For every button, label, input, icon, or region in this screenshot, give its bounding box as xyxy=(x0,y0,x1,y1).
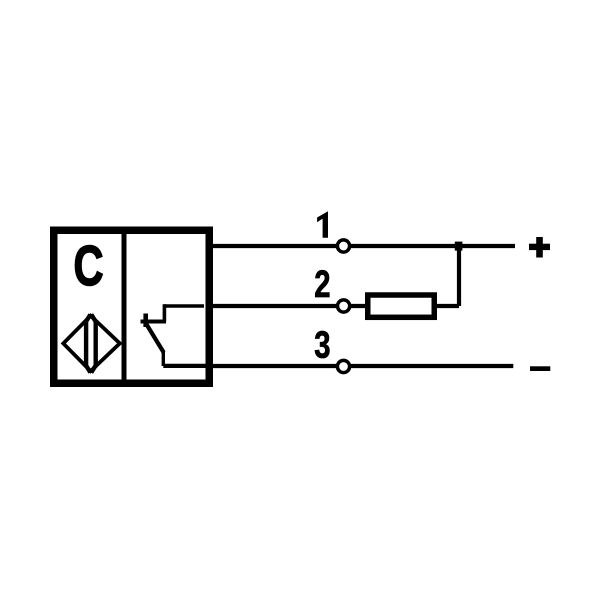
svg-text:2: 2 xyxy=(314,263,330,306)
svg-text:C: C xyxy=(73,234,103,298)
svg-text:3: 3 xyxy=(314,324,330,367)
